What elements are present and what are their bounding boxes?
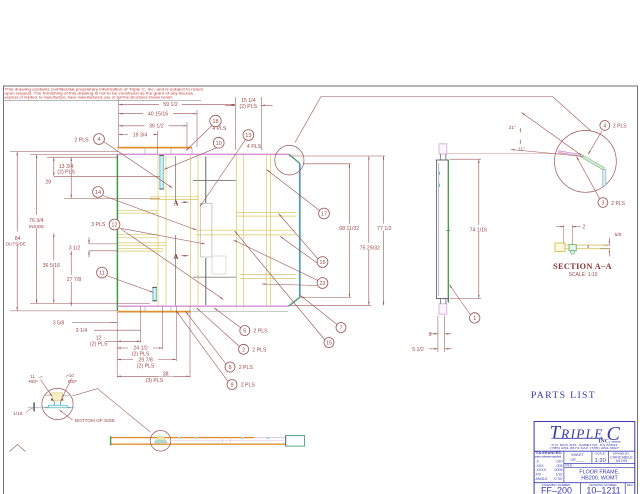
- svg-text:59 1/2: 59 1/2: [163, 102, 178, 108]
- svg-text:7: 7: [339, 326, 342, 332]
- svg-text:A: A: [173, 199, 178, 207]
- svg-text:11°: 11°: [518, 146, 525, 152]
- svg-text:28: 28: [45, 179, 51, 185]
- svg-text:22: 22: [319, 281, 325, 287]
- svg-text:A: A: [173, 253, 178, 261]
- svg-text:3 1/4: 3 1/4: [76, 328, 88, 334]
- svg-text:REF: REF: [29, 379, 38, 384]
- svg-text:OF____: OF____: [570, 457, 585, 462]
- svg-text:40 15/16: 40 15/16: [148, 112, 168, 118]
- svg-text:36 5/16: 36 5/16: [43, 263, 60, 269]
- svg-text:13: 13: [245, 133, 251, 139]
- svg-text:15: 15: [326, 341, 332, 347]
- svg-text:12: 12: [111, 223, 117, 229]
- svg-text:4 PLS: 4 PLS: [212, 126, 227, 132]
- svg-text:10: 10: [216, 141, 222, 147]
- svg-text:SCALE: SCALE: [595, 452, 605, 456]
- svg-text:2 PLS: 2 PLS: [252, 347, 267, 353]
- svg-text:OUTSIDE: OUTSIDE: [6, 242, 26, 247]
- svg-text:5/8: 5/8: [615, 232, 622, 238]
- svg-text:11: 11: [30, 374, 35, 379]
- svg-text:11: 11: [99, 271, 105, 277]
- svg-text:BOTTOM OF SIDE: BOTTOM OF SIDE: [75, 418, 115, 423]
- svg-text:TOLERANCES:: TOLERANCES:: [535, 450, 562, 455]
- svg-text:unless otherwise specified: unless otherwise specified: [535, 455, 561, 459]
- svg-text:1:20: 1:20: [595, 458, 606, 464]
- svg-text:4: 4: [603, 124, 606, 130]
- svg-text:(2) PLS: (2) PLS: [137, 364, 155, 370]
- svg-text:SCALE: 1:10: SCALE: 1:10: [569, 272, 598, 278]
- svg-text:ANGLE: ANGLE: [536, 477, 549, 481]
- svg-text:5: 5: [243, 329, 246, 335]
- svg-text:68 11/32: 68 11/32: [339, 226, 359, 232]
- svg-text:0°30': 0°30': [554, 477, 562, 481]
- svg-text:14: 14: [95, 190, 101, 196]
- svg-text:3 1/2: 3 1/2: [69, 246, 81, 252]
- svg-text:16: 16: [319, 260, 325, 266]
- svg-text:(2) PLS: (2) PLS: [57, 170, 75, 176]
- svg-text:9: 9: [230, 383, 233, 389]
- svg-text:1/16: 1/16: [13, 411, 23, 417]
- svg-text:8: 8: [228, 365, 231, 371]
- svg-text:10–1211: 10–1211: [586, 486, 620, 494]
- svg-text:2 PLS: 2 PLS: [239, 365, 254, 371]
- svg-text:SECTION A–A: SECTION A–A: [553, 262, 612, 271]
- svg-text:REV: REV: [627, 483, 633, 487]
- svg-text:18: 18: [212, 119, 218, 125]
- svg-text:3 PLS: 3 PLS: [91, 222, 106, 228]
- svg-text:3: 3: [429, 332, 432, 338]
- svg-text:HB200, WOMT: HB200, WOMT: [581, 476, 618, 482]
- svg-text:RIPLE: RIPLE: [560, 427, 604, 442]
- svg-text:PARTS LIST: PARTS LIST: [531, 390, 596, 401]
- svg-text:FILE:: FILE:: [566, 464, 574, 468]
- svg-text:1: 1: [473, 316, 476, 322]
- svg-text:2 PLS: 2 PLS: [241, 383, 256, 389]
- svg-text:2 PLS: 2 PLS: [613, 124, 627, 130]
- svg-text:(2) PLS: (2) PLS: [90, 342, 108, 348]
- svg-text:75 29/32: 75 29/32: [360, 245, 380, 251]
- svg-text:74 1/16: 74 1/16: [470, 227, 487, 233]
- svg-text:2 PLS: 2 PLS: [254, 329, 269, 335]
- svg-text:3: 3: [601, 201, 604, 207]
- svg-text:(2) PLS: (2) PLS: [240, 104, 258, 110]
- svg-text:3 5/8: 3 5/8: [53, 320, 65, 326]
- svg-text:5 1/2: 5 1/2: [412, 347, 424, 353]
- svg-text:10: 10: [69, 373, 75, 378]
- svg-text:4: 4: [97, 137, 100, 143]
- svg-text:2: 2: [242, 347, 245, 353]
- svg-text:19 3/4: 19 3/4: [133, 133, 148, 139]
- svg-text:2 PLS: 2 PLS: [74, 137, 89, 143]
- svg-text:2: 2: [582, 224, 585, 230]
- svg-text:5/17/05: 5/17/05: [616, 459, 627, 463]
- svg-text:4 PLS: 4 PLS: [247, 144, 262, 150]
- svg-text:36 1/2: 36 1/2: [149, 124, 164, 130]
- svg-text:INSIDE: INSIDE: [29, 224, 44, 229]
- svg-text:38: 38: [163, 371, 169, 377]
- svg-text:T: T: [550, 423, 562, 444]
- svg-text:FF–200: FF–200: [541, 486, 572, 494]
- svg-text:(3) PLS: (3) PLS: [146, 378, 164, 384]
- svg-text:17: 17: [321, 212, 327, 218]
- svg-text:express or implied, to manufac: express or implied, to manufacture, have…: [5, 95, 174, 99]
- svg-text:27 7/8: 27 7/8: [67, 277, 82, 283]
- svg-text:77 1/2: 77 1/2: [377, 226, 392, 232]
- svg-text:21°: 21°: [509, 125, 516, 131]
- svg-text:2 PLS: 2 PLS: [611, 201, 625, 207]
- svg-text:29 7/8: 29 7/8: [138, 357, 153, 363]
